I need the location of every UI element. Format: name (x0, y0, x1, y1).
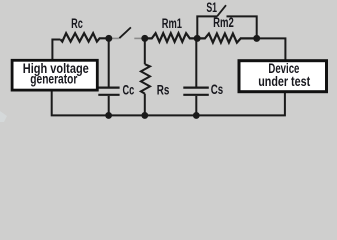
svg-text:Cs: Cs (211, 82, 223, 97)
svg-text:Rm1: Rm1 (162, 16, 183, 31)
svg-text:Cc: Cc (123, 83, 135, 98)
svg-text:Rc: Rc (71, 16, 83, 31)
svg-text:S1: S1 (206, 0, 217, 15)
svg-text:generator: generator (30, 71, 78, 86)
svg-text:under test: under test (258, 74, 310, 89)
svg-text:Rm2: Rm2 (213, 15, 234, 30)
svg-text:Rs: Rs (157, 82, 170, 97)
